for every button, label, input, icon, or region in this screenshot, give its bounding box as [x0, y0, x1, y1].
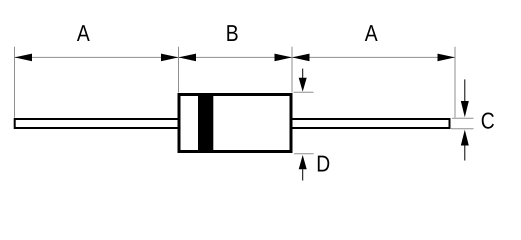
arrow at body-left junction pointing left — [179, 54, 197, 62]
extension line right end — [454, 47, 456, 118]
diode body — [179, 95, 291, 152]
arrow left end (points left) — [15, 54, 33, 62]
C bottom arrow (up) — [461, 130, 469, 146]
D bottom tick — [294, 153, 314, 155]
left lead — [15, 119, 180, 128]
svg-text:A: A — [77, 20, 90, 46]
extension line body left — [178, 47, 180, 93]
right lead — [292, 119, 450, 128]
C top tick — [452, 117, 474, 119]
C top arrow (down) — [464, 79, 466, 101]
arrow at body-right junction pointing right — [275, 54, 293, 62]
D top arrow (down) — [302, 69, 304, 79]
D top tick — [294, 91, 314, 93]
svg-text:A: A — [365, 20, 378, 46]
cathode band — [198, 96, 213, 150]
svg-text:D: D — [316, 151, 330, 177]
C bottom tick — [451, 128, 474, 130]
extension line body right — [291, 47, 293, 93]
arrow right end (points right) — [438, 54, 456, 62]
arrow at body-right junction pointing left — [292, 54, 310, 62]
svg-text:C: C — [481, 108, 495, 134]
arrow at body-left junction pointing right — [161, 54, 179, 62]
svg-text:B: B — [226, 20, 239, 46]
D bottom arrow (up) — [299, 155, 307, 169]
extension line left end — [14, 47, 16, 118]
dimension line A B A — [15, 56, 456, 58]
